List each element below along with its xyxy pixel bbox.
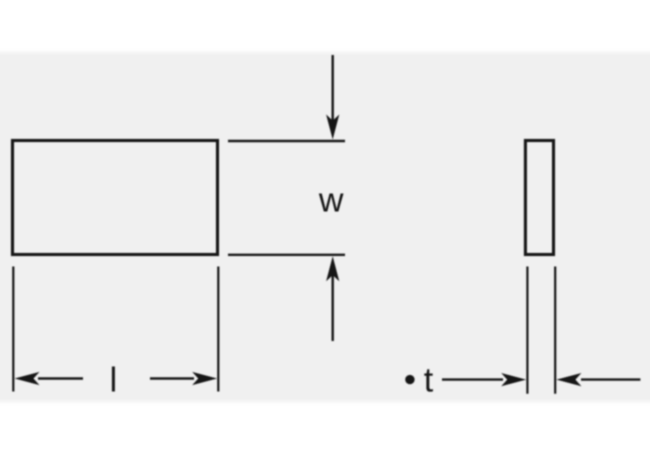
t dimension: right arrow shaft [581,378,640,380]
l dimension: right arrowhead (points right) [192,372,217,385]
t dimension: left extension line [526,267,528,394]
l dimension: right arrow shaft [150,377,194,379]
w dimension: bottom arrow shaft [332,275,334,341]
side view: block edge rectangle (t x w) [525,141,553,255]
t dimension: left arrowhead (points right) [501,373,526,386]
l dimension: right extension line [217,267,219,392]
w dimension: bottom extension line [228,254,345,256]
w dimension: bottom arrowhead (points up) [326,256,339,281]
l dimension: left extension line [12,267,14,392]
gray panel band [0,52,650,402]
front view: block face rectangle (l x w) [13,141,218,255]
svg-text:w: w [318,181,344,219]
svg-text:l: l [110,361,118,399]
w dimension: top extension line [228,140,345,142]
bullet dot before t label [405,375,414,384]
w dimension: top arrow shaft [332,55,334,121]
t dimension: right extension line [554,267,556,394]
t dimension: left arrow shaft [442,378,503,380]
l dimension: left arrowhead (points left) [15,372,40,385]
t dimension: right arrowhead (points left) [556,373,581,386]
l dimension: left arrow shaft [38,377,83,379]
w dimension: top arrowhead (points down) [326,115,339,140]
svg-text:t: t [424,361,434,399]
